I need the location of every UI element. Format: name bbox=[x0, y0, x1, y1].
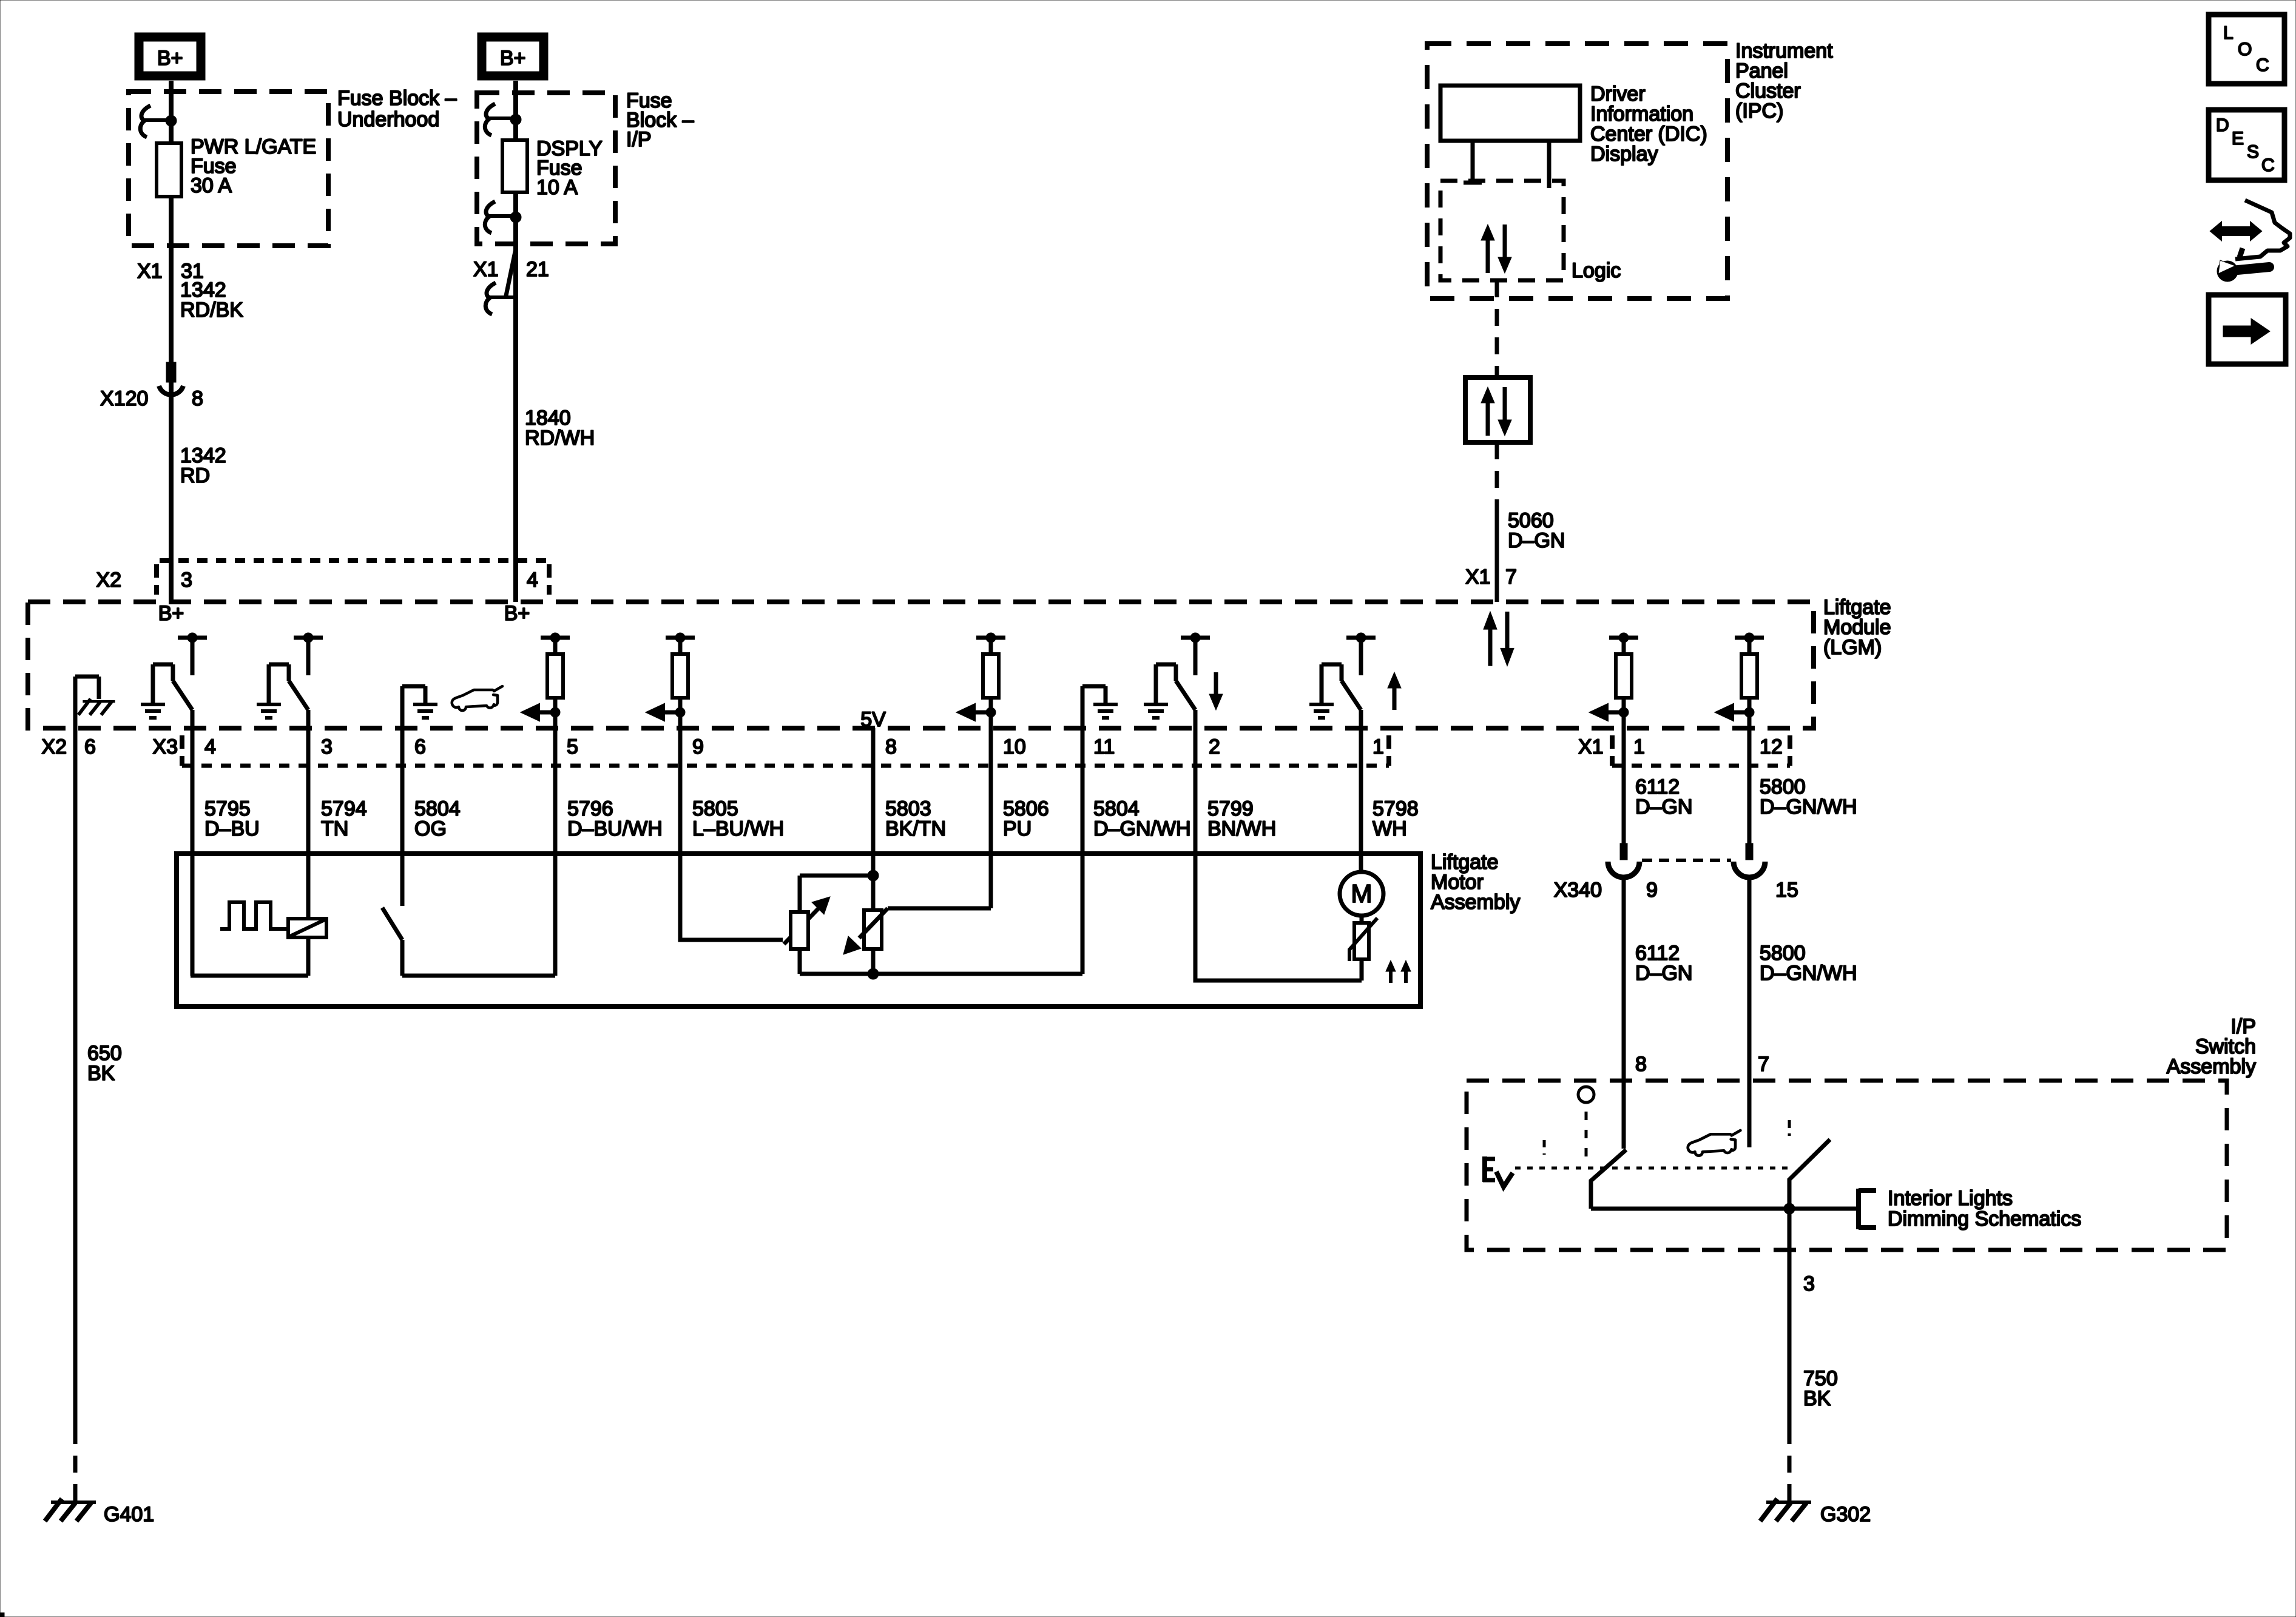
wire 5805 into sensor bbox=[680, 938, 783, 940]
svg-text:21: 21 bbox=[526, 258, 549, 281]
svg-text:D–GN: D–GN bbox=[1635, 795, 1692, 819]
svg-text:B+: B+ bbox=[500, 47, 526, 70]
wire 5804 OG (X3-6 to motor) bbox=[400, 728, 405, 906]
fuse clip (bus tap) bbox=[140, 106, 177, 137]
svg-text:30 A: 30 A bbox=[191, 174, 232, 197]
svg-text:1: 1 bbox=[1633, 735, 1645, 758]
svg-text:X1: X1 bbox=[1578, 735, 1604, 758]
output driver to pin X3-2 bbox=[1144, 633, 1210, 728]
svg-text:Display: Display bbox=[1590, 143, 1658, 166]
switch common rail bbox=[1591, 1207, 1859, 1211]
svg-text:B+: B+ bbox=[158, 602, 184, 625]
svg-text:D–GN/WH: D–GN/WH bbox=[1093, 817, 1191, 840]
rail switch to 5796 bbox=[402, 974, 555, 978]
wire 750 BK label bbox=[1803, 1367, 1838, 1410]
svg-text:RD/BK: RD/BK bbox=[180, 299, 243, 322]
coil lower lead bbox=[306, 937, 311, 976]
B+ power symbol (PWR L/GATE feed) bbox=[139, 37, 201, 76]
connector X120 pin 8 bbox=[100, 362, 203, 410]
connector X340 pin 15 bbox=[1734, 843, 1765, 877]
down arrow (close direction) bbox=[1209, 672, 1223, 710]
motor lead to thermal protector bbox=[1360, 916, 1364, 923]
svg-text:L–BU/WH: L–BU/WH bbox=[692, 817, 784, 840]
svg-text:11: 11 bbox=[1093, 735, 1115, 758]
svg-text:I/P: I/P bbox=[626, 128, 652, 151]
switch illumination lamp bbox=[1578, 1087, 1594, 1102]
svg-text:O: O bbox=[2238, 39, 2252, 59]
svg-text:S: S bbox=[2247, 142, 2259, 162]
svg-text:Underhood: Underhood bbox=[337, 108, 439, 131]
latch switch lower lead bbox=[400, 940, 405, 976]
junction node (switch common) bbox=[1784, 1203, 1795, 1214]
fuse clip upper (I/P) bbox=[485, 104, 521, 135]
wire 5795 (X3-4 to motor) bbox=[191, 710, 195, 976]
connector X340 pin 9 bbox=[1608, 843, 1639, 877]
svg-text:D–GN: D–GN bbox=[1508, 529, 1565, 552]
wire 5805 (X3-9 to motor) bbox=[678, 698, 683, 940]
I/P Switch Assembly label bbox=[2167, 1015, 2256, 1078]
thermal protector (PTC) bbox=[1349, 918, 1377, 961]
svg-text:2: 2 bbox=[1209, 735, 1220, 758]
svg-text:OG: OG bbox=[414, 817, 447, 840]
IPC label bbox=[1735, 39, 1833, 123]
wire 1342 RD label bbox=[180, 444, 226, 487]
lamp link (dashed) bbox=[1585, 1112, 1588, 1166]
latch pulse signal symbol bbox=[220, 902, 288, 929]
junction node (sensor bottom) bbox=[868, 968, 879, 979]
connector tap stub at X1 21 bbox=[485, 249, 516, 314]
svg-text:B+: B+ bbox=[157, 47, 183, 70]
svg-text:X2: X2 bbox=[41, 735, 67, 758]
wire 5060 D-GN label bbox=[1508, 509, 1565, 552]
svg-text:3: 3 bbox=[321, 735, 333, 758]
svg-text:X2: X2 bbox=[96, 569, 121, 592]
svg-text:9: 9 bbox=[1646, 879, 1658, 902]
svg-text:X1: X1 bbox=[137, 260, 163, 283]
liftgate open switch (left) bbox=[1591, 1150, 1626, 1209]
off-page connector bracket bbox=[1859, 1189, 1876, 1229]
svg-text:C: C bbox=[2261, 155, 2275, 175]
svg-text:Assembly: Assembly bbox=[1431, 891, 1520, 914]
position sensor element 1 bbox=[791, 876, 873, 974]
svg-text:D–GN: D–GN bbox=[1635, 962, 1692, 985]
svg-text:X120: X120 bbox=[100, 387, 148, 410]
liftgate icon (I/P switch) bbox=[1688, 1130, 1741, 1156]
wire 5799 (X3-2 to motor) bbox=[1194, 710, 1198, 981]
wire 5800 D-GN/WH lower label bbox=[1760, 942, 1857, 985]
svg-text:6: 6 bbox=[414, 735, 426, 758]
wire 5806 to wiper 2 bbox=[888, 906, 991, 911]
wire 5798 WH label bbox=[1373, 797, 1419, 840]
ground G401 bbox=[45, 1499, 154, 1526]
symbol E (export) bbox=[1483, 1156, 1513, 1187]
wire 650 BK dashed end bbox=[73, 1427, 78, 1501]
Fuse Block - Underhood box bbox=[129, 92, 328, 246]
svg-text:3: 3 bbox=[181, 569, 192, 592]
svg-text:PU: PU bbox=[1003, 817, 1032, 840]
wire 5804 OG label bbox=[414, 797, 461, 840]
wire 6112 D-GN lower label bbox=[1635, 942, 1692, 985]
wire 5800 D-GN/WH upper label bbox=[1760, 775, 1857, 819]
liftgate ajar switch to ground at pin X3-6 bbox=[402, 686, 437, 728]
svg-text:RD: RD bbox=[180, 464, 210, 487]
Interior Lights Dimming Schematics label bbox=[1888, 1187, 2081, 1230]
DIC label bbox=[1590, 83, 1707, 166]
LGM pin number row bbox=[41, 735, 1782, 758]
LGM label bbox=[1823, 596, 1891, 659]
Fuse Block - I/P box bbox=[477, 93, 615, 244]
schematic navigation icon (double arrow, outline, wrench) bbox=[2210, 200, 2290, 282]
motor M bbox=[1340, 872, 1383, 916]
wire 5805 L-BU/WH label bbox=[692, 797, 784, 840]
svg-text:G401: G401 bbox=[104, 1503, 154, 1526]
Fuse Block - I/P label bbox=[626, 89, 694, 151]
svg-text:G302: G302 bbox=[1820, 1503, 1871, 1526]
wire 5804 D-GN/WH label bbox=[1093, 797, 1191, 840]
fuse value label bbox=[536, 137, 603, 199]
wire 5798 (X3-1 to motor) bbox=[1359, 710, 1363, 874]
fuse clip lower (I/P) bbox=[485, 201, 521, 233]
svg-text:6: 6 bbox=[84, 735, 96, 758]
output driver to pin X3-4 bbox=[141, 633, 207, 728]
wire 5796 (X3-5 to motor) bbox=[553, 698, 558, 976]
svg-text:X3: X3 bbox=[152, 735, 178, 758]
B+ power symbol (DSPLY feed) bbox=[482, 37, 544, 76]
wire 650 BK bbox=[73, 728, 78, 1428]
liftgate icon bbox=[452, 686, 502, 711]
pull-up input at pin X1-12 bbox=[1715, 633, 1764, 728]
svg-text:10: 10 bbox=[1003, 735, 1026, 758]
svg-text:TN: TN bbox=[321, 817, 348, 840]
svg-text:BN/WH: BN/WH bbox=[1207, 817, 1276, 840]
svg-text:C: C bbox=[2256, 55, 2269, 75]
ground hook at pin X3-11 bbox=[1082, 686, 1118, 728]
wire 5803 BK/TN label bbox=[885, 797, 946, 840]
Logic box bbox=[1440, 181, 1564, 280]
Instrument Panel Cluster (IPC) box bbox=[1427, 44, 1727, 299]
scan speck bottom-left bbox=[0, 1613, 4, 1617]
wire 5800 upper (X1-12 to X340) bbox=[1747, 698, 1752, 845]
dashed serial wire from Logic bbox=[1495, 280, 1499, 377]
fuse PWR L/GATE 30A bbox=[157, 143, 181, 197]
Driver Information Center (DIC) Display block bbox=[1440, 86, 1580, 141]
svg-text:5: 5 bbox=[567, 735, 578, 758]
latch switch blade bbox=[382, 908, 402, 940]
wire 6112 lower (X340 to I/P switch) bbox=[1622, 877, 1626, 1149]
svg-text:Assembly: Assembly bbox=[2167, 1055, 2256, 1078]
DIC to Logic legs bbox=[1464, 141, 1549, 188]
svg-text:8: 8 bbox=[1635, 1053, 1647, 1076]
svg-text:1: 1 bbox=[1373, 735, 1384, 758]
up arrow (open direction) bbox=[1388, 672, 1401, 710]
pin X1 21 of fuse block bbox=[473, 258, 549, 281]
wire 5803 (X3-8 to motor) bbox=[871, 728, 876, 876]
position sensor wiper 2 (arrow down-left) bbox=[843, 908, 888, 954]
output driver to pin X3-1 bbox=[1309, 633, 1376, 728]
svg-text:Interior Lights: Interior Lights bbox=[1888, 1187, 2013, 1210]
switch coupling link (dotted) bbox=[1515, 1167, 1793, 1170]
thermal protector lower lead bbox=[1360, 959, 1364, 981]
svg-text:8: 8 bbox=[885, 735, 897, 758]
wire 750 (switch common to ground) bbox=[1788, 1209, 1792, 1428]
latch relay coil bbox=[288, 919, 326, 937]
svg-text:5V: 5V bbox=[860, 708, 886, 731]
svg-text:D: D bbox=[2216, 115, 2229, 135]
svg-text:Dimming Schematics: Dimming Schematics bbox=[1888, 1207, 2081, 1230]
link tick right bbox=[1788, 1120, 1791, 1136]
position sensor wiper 1 (arrow up-right) bbox=[784, 897, 830, 944]
connector X1 body (dotted) bbox=[1612, 735, 1790, 766]
Liftgate Module box bbox=[28, 602, 1814, 728]
svg-text:D–GN/WH: D–GN/WH bbox=[1760, 795, 1857, 819]
svg-text:BK/TN: BK/TN bbox=[885, 817, 946, 840]
wire 5796 D-BU/WH label bbox=[567, 797, 663, 840]
wire 5806 PU label bbox=[1003, 797, 1049, 840]
sensor ground rail to 5804 bbox=[800, 972, 1082, 976]
ground G302 bbox=[1760, 1499, 1871, 1526]
wire 650 BK label bbox=[87, 1042, 122, 1085]
serial data arrows in Logic bbox=[1481, 224, 1511, 273]
svg-text:D–BU: D–BU bbox=[204, 817, 260, 840]
svg-text:(LGM): (LGM) bbox=[1823, 636, 1882, 659]
junction node (sensor top) bbox=[868, 870, 879, 881]
wire 750 BK dashed end bbox=[1788, 1427, 1792, 1501]
svg-text:4: 4 bbox=[527, 569, 538, 592]
connector X3 body (dotted) bbox=[182, 735, 1389, 766]
svg-text:9: 9 bbox=[692, 735, 704, 758]
svg-text:D–BU/WH: D–BU/WH bbox=[567, 817, 663, 840]
fuse value label bbox=[191, 135, 316, 197]
svg-text:WH: WH bbox=[1373, 817, 1407, 840]
LOC icon box bbox=[2209, 15, 2284, 84]
svg-text:X1: X1 bbox=[1465, 565, 1491, 589]
link tick bbox=[1543, 1140, 1546, 1155]
serial data arrows at pin X1-7 bbox=[1484, 612, 1514, 666]
pull-up input at pin X3-9 bbox=[646, 633, 695, 728]
svg-text:RD/WH: RD/WH bbox=[525, 427, 595, 450]
rail 5799 to motor return bbox=[1195, 979, 1362, 981]
svg-text:12: 12 bbox=[1760, 735, 1783, 758]
pull-up input at pin X1-1 bbox=[1590, 633, 1638, 728]
Liftgate Motor Assembly label bbox=[1431, 851, 1520, 914]
wire 6112 D-GN upper label bbox=[1635, 775, 1692, 819]
DESC icon box bbox=[2209, 110, 2284, 180]
svg-text:8: 8 bbox=[192, 387, 203, 410]
svg-text:L: L bbox=[2223, 23, 2234, 43]
pull-up input at pin X3-5 bbox=[521, 633, 570, 728]
connector X340 labels bbox=[1554, 879, 1798, 902]
svg-text:M: M bbox=[1351, 879, 1373, 908]
wire 5794 TN label bbox=[321, 797, 367, 840]
fuse DSPLY 10A bbox=[502, 140, 527, 192]
heat arrows bbox=[1386, 960, 1411, 983]
svg-text:B+: B+ bbox=[504, 602, 530, 625]
svg-text:BK: BK bbox=[87, 1062, 115, 1085]
wire 5799 BN/WH label bbox=[1207, 797, 1276, 840]
next-page arrow icon box bbox=[2209, 295, 2286, 364]
connector X2 row (top of LGM) bbox=[96, 561, 549, 595]
svg-text:E: E bbox=[2232, 129, 2244, 149]
pin X1 7 of LGM bbox=[1465, 565, 1517, 589]
svg-text:3: 3 bbox=[1803, 1272, 1815, 1295]
svg-text:10 A: 10 A bbox=[536, 176, 578, 199]
dashed serial wire below symbol bbox=[1495, 442, 1499, 510]
Liftgate Motor Assembly box bbox=[177, 854, 1420, 1007]
rail 5795 to coil bbox=[191, 974, 308, 978]
svg-text:X340: X340 bbox=[1554, 879, 1602, 902]
wire 5060 solid segment bbox=[1495, 510, 1499, 602]
wire from B+ through Fuse Block I/P bbox=[513, 81, 518, 602]
output driver to pin X3-3 bbox=[257, 633, 323, 728]
wire 5804 (X3-11 to motor) bbox=[1081, 728, 1085, 974]
internal chassis ground at X2-6 bbox=[75, 677, 115, 728]
svg-text:BK: BK bbox=[1803, 1387, 1831, 1410]
wire 5795 D-BU label bbox=[204, 797, 260, 840]
wire 1840 RD/WH label bbox=[525, 407, 595, 450]
pull-up input at pin X3-10 bbox=[957, 633, 1005, 728]
svg-text:Logic: Logic bbox=[1572, 259, 1621, 282]
wire 5794 (X3-3 to motor) bbox=[306, 710, 311, 920]
svg-text:(IPC): (IPC) bbox=[1735, 100, 1783, 123]
I/P Switch Assembly box bbox=[1467, 1081, 2227, 1250]
Fuse Block - Underhood label bbox=[337, 87, 457, 131]
svg-text:4: 4 bbox=[204, 735, 216, 758]
svg-text:Fuse Block –: Fuse Block – bbox=[337, 87, 457, 110]
svg-text:7: 7 bbox=[1505, 565, 1517, 589]
svg-text:15: 15 bbox=[1775, 879, 1798, 902]
pin X1 31 of fuse block bbox=[137, 260, 204, 283]
svg-text:7: 7 bbox=[1758, 1053, 1769, 1076]
svg-text:X1: X1 bbox=[473, 258, 499, 281]
connector X340 link (dashed) bbox=[1642, 859, 1731, 862]
wire from B+ to Fuse Block Underhood bbox=[169, 81, 174, 602]
wire 5806 (X3-10 to motor) bbox=[989, 698, 993, 908]
liftgate close switch (right) bbox=[1789, 1139, 1830, 1209]
wire 5800 lower (X340 to I/P switch) bbox=[1747, 877, 1752, 1147]
wire 6112 upper (X1-1 to X340) bbox=[1622, 698, 1626, 845]
serial data symbol box bbox=[1465, 377, 1530, 442]
wire 1342 RD/BK label bbox=[180, 279, 243, 322]
position sensor element 2 bbox=[864, 876, 882, 974]
svg-text:D–GN/WH: D–GN/WH bbox=[1760, 962, 1857, 985]
